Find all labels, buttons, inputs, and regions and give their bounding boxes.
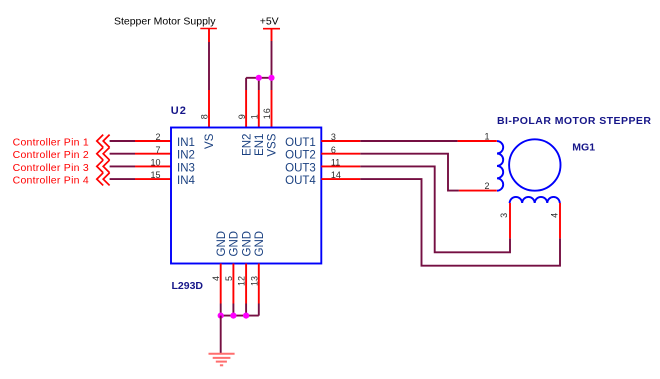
- junction dot VSS: [268, 75, 274, 81]
- pin 5 GND stub: [232, 264, 234, 304]
- pin 4 GND stub: [220, 264, 222, 304]
- power terminal Stepper Motor Supply bar: [200, 28, 217, 30]
- svg-text:7: 7: [155, 145, 160, 155]
- svg-text:IN1: IN1: [177, 137, 195, 149]
- wire terminal to IN2: [110, 153, 135, 155]
- svg-text:1: 1: [250, 114, 260, 119]
- svg-text:4: 4: [211, 276, 221, 281]
- motor MG1 body circle: [509, 139, 560, 190]
- svg-text:OUT3: OUT3: [285, 162, 316, 174]
- pin 15 IN4 stub: [135, 178, 171, 180]
- wire terminal stub +5V: [271, 29, 273, 41]
- power terminal +5V bar: [263, 28, 280, 30]
- junction dot EN1: [256, 75, 262, 81]
- wire VSS drop: [271, 78, 273, 90]
- coil pin 3 stub: [509, 203, 511, 238]
- svg-text:Controller Pin 2: Controller Pin 2: [13, 149, 89, 161]
- svg-text:Controller Pin 1: Controller Pin 1: [13, 136, 89, 148]
- svg-text:IN2: IN2: [177, 150, 195, 162]
- svg-text:15: 15: [150, 170, 160, 180]
- input terminal chevron row 3: [97, 160, 110, 173]
- coil pin 4 stub: [559, 203, 561, 238]
- wire GND bus horizontal: [221, 315, 259, 317]
- svg-text:4: 4: [550, 213, 560, 218]
- wire OUT2 to coil pin 2: [360, 154, 459, 191]
- wire OUT1 to coil pin 1: [360, 140, 457, 142]
- ground symbol: [209, 354, 235, 366]
- pin 16 VSS stub: [271, 90, 273, 128]
- svg-text:OUT2: OUT2: [285, 150, 316, 162]
- pin 11 OUT3 stub: [321, 165, 360, 167]
- pin 8 VS stub: [208, 90, 210, 128]
- pin 12 GND stub: [245, 264, 247, 304]
- svg-text:2: 2: [484, 181, 489, 191]
- pin 7 IN2 stub: [135, 153, 171, 155]
- op IC U2 body L293D: [171, 128, 321, 264]
- svg-text:12: 12: [237, 276, 247, 286]
- svg-text:MG1: MG1: [572, 142, 595, 154]
- wire OUT3 to coil pin 3: [360, 166, 510, 252]
- svg-text:OUT1: OUT1: [285, 137, 316, 149]
- pin 1 EN1 stub: [258, 90, 260, 128]
- pin 14 OUT4 stub: [321, 178, 360, 180]
- wire GND down to ground: [220, 316, 222, 354]
- svg-text:OUT4: OUT4: [285, 175, 316, 187]
- input terminal chevron row 2: [97, 147, 110, 160]
- wire EN1 drop: [258, 78, 260, 90]
- svg-text:GND: GND: [229, 231, 241, 257]
- input terminal chevron row 4: [97, 173, 110, 186]
- svg-text:5: 5: [224, 276, 234, 281]
- svg-text:EN1: EN1: [254, 134, 266, 156]
- wire terminal to IN1: [110, 140, 135, 142]
- svg-text:BI-POLAR MOTOR STEPPER: BI-POLAR MOTOR STEPPER: [497, 115, 651, 127]
- pin 2 IN1 stub: [135, 140, 171, 142]
- svg-text:L293D: L293D: [172, 280, 204, 292]
- wire OUT4 to coil pin 4: [360, 179, 560, 266]
- wire terminal stub VS net: [208, 29, 210, 43]
- motor MG1 winding horizontal: [510, 197, 560, 203]
- wire terminal to IN4: [110, 178, 135, 180]
- svg-text:Controller Pin 3: Controller Pin 3: [13, 162, 89, 174]
- svg-text:10: 10: [150, 158, 160, 168]
- wire terminal to IN3: [110, 165, 135, 167]
- svg-text:9: 9: [237, 114, 247, 119]
- junction dot GND b: [230, 313, 236, 319]
- svg-text:IN3: IN3: [177, 162, 195, 174]
- coil pin 2 stub: [459, 190, 497, 192]
- input terminal chevron row 1: [97, 135, 110, 148]
- pin 13 GND stub: [258, 264, 260, 304]
- wire junction horizontal to EN2: [246, 77, 271, 79]
- coil pin 1 stub: [458, 140, 497, 142]
- wire +5V down to junction: [271, 41, 273, 78]
- junction dot GND c: [243, 313, 249, 319]
- pin 6 OUT2 stub: [321, 153, 360, 155]
- pin 9 EN2 stub: [245, 90, 247, 128]
- svg-text:VS: VS: [204, 133, 216, 149]
- svg-text:Stepper Motor Supply: Stepper Motor Supply: [114, 16, 216, 28]
- svg-text:16: 16: [262, 107, 272, 119]
- svg-text:13: 13: [249, 276, 259, 286]
- svg-text:GND: GND: [216, 231, 228, 257]
- junction dot GND a: [218, 313, 224, 319]
- svg-text:VSS: VSS: [267, 133, 279, 156]
- svg-text:+5V: +5V: [260, 16, 279, 28]
- svg-text:GND: GND: [241, 231, 253, 257]
- wire GND pin drops: [221, 304, 259, 316]
- svg-text:Controller Pin 4: Controller Pin 4: [13, 175, 89, 187]
- svg-text:8: 8: [200, 114, 210, 119]
- svg-text:IN4: IN4: [177, 175, 196, 187]
- pin 10 IN3 stub: [135, 165, 171, 167]
- motor MG1 winding vertical: [497, 141, 503, 191]
- pin 3 OUT1 stub: [321, 140, 360, 142]
- svg-text:EN2: EN2: [241, 134, 253, 156]
- svg-text:3: 3: [499, 213, 509, 218]
- wire EN2 drop: [245, 78, 247, 90]
- svg-text:2: 2: [155, 132, 160, 142]
- wire Stepper Motor Supply to VS pin: [208, 42, 210, 90]
- svg-text:1: 1: [484, 131, 489, 141]
- svg-text:GND: GND: [254, 231, 266, 257]
- svg-text:U2: U2: [171, 105, 187, 117]
